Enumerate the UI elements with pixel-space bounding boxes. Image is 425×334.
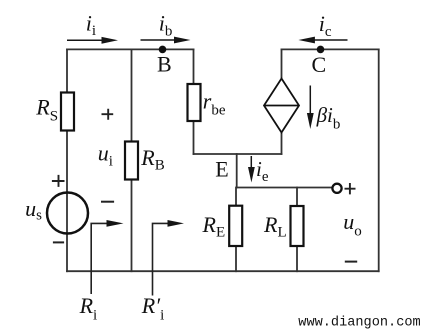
node B dot xyxy=(159,46,167,54)
label us minus xyxy=(53,241,64,243)
wire output horizontal xyxy=(237,187,333,189)
wire rbe branch vertical xyxy=(193,49,195,154)
wire RB branch vertical xyxy=(131,49,133,271)
label uo minus xyxy=(345,261,357,263)
wire left vertical xyxy=(66,49,68,271)
resistor rbe xyxy=(188,84,201,121)
wire E horizontal xyxy=(194,153,282,155)
label ui minus xyxy=(101,201,114,203)
resistor RE xyxy=(229,206,242,246)
wire dependent-source vertical xyxy=(281,49,283,154)
wire RE branch xyxy=(235,188,237,272)
wire right vertical xyxy=(378,49,380,271)
arrow beta-ib xyxy=(307,86,314,130)
arrow ic xyxy=(298,37,347,44)
wire bottom horizontal xyxy=(67,270,379,272)
svg-text:E: E xyxy=(215,156,228,181)
svg-text:B: B xyxy=(157,52,172,77)
svg-text:C: C xyxy=(312,52,327,77)
arrow ib xyxy=(141,37,191,44)
resistor RL xyxy=(291,206,304,246)
wire top-right horizontal xyxy=(282,48,379,50)
label us plus xyxy=(52,175,65,187)
arrow Ri xyxy=(91,220,123,294)
arrow Ri' xyxy=(153,220,185,296)
wire RL branch xyxy=(296,188,298,272)
svg-text:www.diangon.com: www.diangon.com xyxy=(298,316,420,331)
resistor RB xyxy=(125,142,138,180)
wire E node down xyxy=(236,154,238,188)
wire top-left horizontal xyxy=(67,48,194,50)
output terminal xyxy=(332,184,341,193)
arrow ie xyxy=(248,156,255,183)
label ui plus xyxy=(102,109,114,120)
dependent current source diamond xyxy=(264,79,299,133)
label uo plus xyxy=(345,183,356,194)
resistor RS xyxy=(61,93,74,131)
node C dot xyxy=(317,46,325,54)
voltage source us xyxy=(47,193,88,234)
arrow ii xyxy=(67,37,118,44)
